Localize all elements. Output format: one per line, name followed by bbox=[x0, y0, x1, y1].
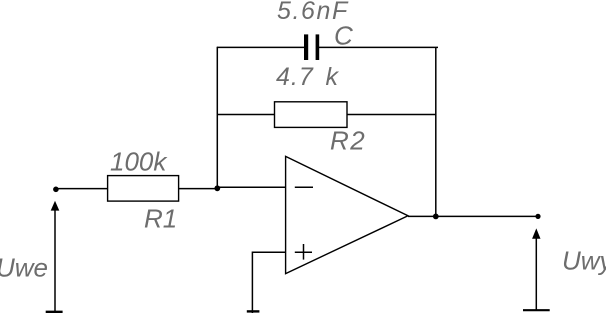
ground Uwy (bar) bbox=[523, 309, 550, 311]
op-amp U1 bbox=[286, 156, 408, 273]
node output end (dot) bbox=[535, 214, 540, 219]
svg-text:C: C bbox=[334, 20, 353, 50]
node input (dot) bbox=[53, 187, 59, 193]
svg-text:k: k bbox=[326, 63, 340, 91]
resistor R1 bbox=[108, 176, 179, 202]
wire non-inverting input to ground bbox=[252, 251, 285, 253]
wire middle feedback right segment bbox=[347, 114, 436, 116]
resistor R2 bbox=[275, 102, 348, 128]
capacitor C bbox=[304, 34, 319, 60]
wire ground vertical bbox=[251, 252, 253, 313]
wire output bbox=[408, 215, 538, 217]
source arrow Uwe (shaft) bbox=[54, 209, 56, 312]
ground (bar) bbox=[247, 310, 260, 312]
pin plus (non-inverting input marker) bbox=[295, 244, 312, 260]
svg-text:Uwy: Uwy bbox=[562, 246, 606, 276]
svg-text:R1: R1 bbox=[144, 203, 177, 233]
wire top feedback left segment bbox=[217, 46, 305, 48]
node output junction (dot) bbox=[433, 214, 439, 220]
node junction A (dot) bbox=[214, 185, 220, 191]
wire top feedback right segment bbox=[319, 46, 438, 48]
wire input to R1 bbox=[56, 188, 108, 190]
svg-text:R2: R2 bbox=[330, 126, 366, 156]
wire junction to op-amp inverting input bbox=[217, 186, 285, 188]
svg-text:Uwe: Uwe bbox=[0, 252, 48, 282]
source arrow Uwe (head) bbox=[51, 201, 60, 211]
wire R1 to junction bbox=[179, 188, 218, 190]
ground Uwe (bar) bbox=[46, 311, 63, 313]
wire left feedback vertical bbox=[216, 47, 218, 189]
wire middle feedback left segment bbox=[217, 114, 275, 116]
svg-text:4.7: 4.7 bbox=[276, 63, 314, 91]
source arrow Uwy (shaft) bbox=[535, 237, 537, 310]
svg-text:100k: 100k bbox=[110, 146, 168, 176]
pin minus (inverting input marker) bbox=[295, 186, 313, 188]
source arrow Uwy (head) bbox=[532, 228, 540, 238]
wire right feedback vertical bbox=[435, 47, 437, 216]
